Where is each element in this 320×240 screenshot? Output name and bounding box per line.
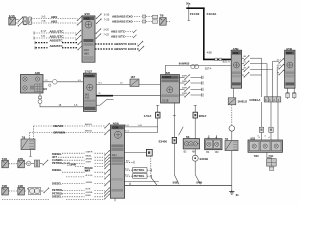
wire row4 ABS/STC: [34, 34, 76, 39]
vertical riser 1: [261, 58, 263, 97]
wire row5 bold ABS/STC: [35, 39, 78, 45]
inline terminals r1/r2: [143, 15, 152, 23]
svg-text:7/30: 7/30: [254, 155, 259, 158]
svg-text:C/WELA: C/WELA: [249, 98, 260, 102]
boxed label PETROL 1: [124, 167, 151, 172]
switch g1: [43, 160, 49, 165]
thick feed wire: [204, 8, 231, 59]
connector 16/7: [130, 76, 139, 86]
module 5/8 right wire 2: [180, 80, 204, 85]
svg-text:REM: REM: [286, 52, 292, 55]
wire right pin1b: [125, 130, 158, 133]
wire A00 to 37/37 upper: [43, 80, 83, 82]
wire down from 4.5LF to pin rows: [157, 118, 159, 133]
svg-text:ABS /STC: ABS /STC: [111, 35, 126, 39]
junction 4.5LF: [144, 112, 160, 118]
wire rr6 bold ABS/STC EXC: [95, 47, 139, 51]
svg-text:F1C2A: F1C2A: [207, 12, 218, 16]
module 5/8 right wire 4: [180, 92, 204, 97]
switch r2: [96, 19, 102, 24]
wire r1 ABS/ABS EXC: [104, 14, 142, 19]
dashed wires group1 to module: [62, 150, 110, 155]
svg-text:DIESEL: DIESEL: [52, 168, 62, 172]
extra row 177: [66, 174, 110, 179]
svg-text:DIESEL: DIESEL: [52, 181, 62, 185]
svg-text:7<8: 7<8: [41, 35, 46, 38]
CEM right wire 1: [242, 55, 262, 60]
CEM right wire 3: [242, 66, 273, 71]
svg-text:E3C2B: E3C2B: [200, 157, 208, 161]
svg-text:AR/BB: AR/BB: [86, 157, 93, 160]
wire PETROL to module: [62, 160, 110, 165]
svg-text:PETROL: PETROL: [52, 161, 63, 165]
svg-text:A 3<26: A 3<26: [86, 174, 94, 177]
svg-text:BL/R: BL/R: [86, 189, 91, 191]
wire below 7/8: [29, 150, 31, 157]
fuse block 2-cell: [23, 17, 32, 25]
wire r2 ABS/ABS EXC: [104, 19, 142, 24]
dashes between2: [9, 190, 18, 192]
connector B 2-cell: [205, 135, 222, 154]
wire row2 ABS: [31, 19, 77, 23]
svg-text:30a: 30a: [186, 2, 191, 6]
vertical dashed drops to 7/8 box: [30, 126, 34, 139]
svg-text:3<17: 3<17: [41, 30, 47, 33]
switch row2: [77, 20, 83, 25]
wire right pin1a: [125, 124, 158, 127]
brake label 2-line: [85, 167, 94, 173]
svg-text:ABS/STC EXC: ABS/STC EXC: [114, 47, 135, 51]
REM bottom pins: [286, 88, 296, 99]
connector 9/32 labels below: [254, 155, 274, 158]
wire 16/7 to module 5/8: [139, 83, 161, 85]
bus bar: [186, 7, 204, 9]
svg-text:B2/1-A: B2/1-A: [223, 60, 230, 63]
wire row1 ABS: [31, 15, 77, 19]
svg-text:7<8: 7<8: [41, 20, 46, 23]
svg-text:ABS: ABS: [84, 17, 90, 21]
switch row6: [78, 45, 84, 50]
module 5/8 right wire 3: [180, 86, 204, 91]
svg-text:CEM: CEM: [233, 52, 239, 55]
inline connector circle: [53, 80, 58, 85]
risers below strip: [262, 102, 279, 140]
switch g2: [44, 188, 50, 193]
connector 17/2 terminals: [152, 15, 157, 23]
wire right pin3 short dashed: [124, 160, 134, 164]
svg-text:COM: COM: [112, 127, 118, 130]
svg-text:41/M41B: 41/M41B: [162, 76, 172, 79]
svg-text:WKT: WKT: [85, 171, 91, 173]
wire PETROL g2 to module: [62, 187, 110, 192]
wire OB/VIO: [34, 123, 105, 128]
svg-text:SB/BN: SB/BN: [86, 182, 93, 184]
dashed wires group2 to module: [62, 181, 110, 186]
wire stub above 9/8LF: [194, 105, 197, 112]
pump element: [25, 187, 44, 194]
svg-text:ABS /STC: ABS /STC: [50, 34, 65, 38]
switch rr6: [139, 46, 145, 51]
switch r1: [96, 14, 102, 19]
long wire over module 5/8: [165, 63, 230, 75]
shield grommet: [228, 98, 247, 105]
svg-text:PETROL: PETROL: [134, 168, 145, 172]
svg-text:3<20: 3<20: [103, 29, 109, 32]
connector strip C/WELA: [249, 97, 280, 102]
ground G31: [229, 190, 239, 197]
switch row1: [77, 16, 83, 21]
svg-text:BRAKE: BRAKE: [85, 167, 94, 170]
extra row 166: [67, 164, 110, 169]
svg-text:DIESEL: DIESEL: [52, 195, 62, 199]
connector 7/8 (mid-left): [21, 135, 35, 149]
right label column group1: [52, 152, 76, 172]
terminal mark 1: [259, 127, 263, 132]
svg-text:GB/R: GB/R: [86, 162, 92, 164]
connector 1/2B: [18, 185, 25, 195]
wire 4KT to module: [58, 154, 110, 159]
svg-text:2<12: 2<12: [67, 164, 73, 167]
wire right pin2 to junction: [124, 149, 152, 156]
wire stub above 4.5LF: [156, 105, 159, 112]
svg-text:C/12B: C/12B: [162, 100, 169, 102]
switch into module2: [104, 130, 110, 135]
svg-text:9/4: 9/4: [43, 88, 47, 91]
svg-text:ABS: ABS: [84, 53, 89, 56]
wire rr5 bold ABS/STC EXC: [95, 42, 138, 46]
wire DIESEL g2 to module: [62, 194, 110, 199]
dashed drop from junction: [150, 156, 152, 177]
wire stub after switch: [107, 98, 114, 100]
svg-text:M: M: [27, 162, 29, 166]
wire DIESEL2 to module: [62, 169, 110, 174]
vertical riser 2: [266, 64, 268, 97]
switch row5: [78, 40, 84, 45]
svg-text:7<25: 7<25: [104, 19, 110, 22]
svg-text:SHIELD: SHIELD: [238, 100, 248, 104]
capacitor element: [31, 160, 43, 167]
svg-text:31: 31: [236, 193, 240, 197]
svg-text:B2T-4: B2T-4: [205, 67, 212, 70]
ground stub under A00: [39, 93, 41, 96]
svg-text:3<30: 3<30: [104, 14, 110, 17]
wire right pin6: [124, 180, 159, 182]
splice E3C2B: [192, 155, 208, 161]
svg-text:7/4J: 7/4J: [268, 155, 273, 158]
svg-text:6A/M41B: 6A/M41B: [179, 63, 190, 66]
vertical riser 4: [276, 67, 278, 97]
switch rr3: [96, 29, 102, 34]
wire OR/WBN: [30, 131, 105, 135]
svg-text:BA/BL: BA/BL: [86, 154, 93, 157]
stub wire: [188, 5, 190, 8]
svg-text:39/2: 39/2: [85, 94, 90, 96]
switch rr5: [138, 41, 144, 46]
svg-text:ABS: ABS: [51, 15, 57, 19]
svg-text:ABS/ABS EXC: ABS/ABS EXC: [112, 20, 133, 24]
CEM right wire 4: [242, 72, 262, 77]
REM left wire 2: [277, 64, 285, 69]
splice circle right: [229, 126, 235, 132]
svg-text:AB/GB: AB/GB: [85, 123, 92, 126]
svg-text:4/5B: 4/5B: [207, 52, 212, 55]
junction 9/8LF: [193, 112, 207, 118]
svg-text:ABS/STC: ABS/STC: [50, 44, 64, 48]
switch row4: [76, 35, 82, 40]
connector 1/7B: [18, 158, 25, 168]
svg-text:7<25: 7<25: [103, 34, 109, 37]
svg-text:ABS: ABS: [51, 19, 57, 23]
wire to module 5/8: [113, 95, 161, 97]
connector 7/8 X-box top right: [160, 14, 171, 26]
switch S1b: [18, 21, 24, 26]
vertical riser 3: [272, 61, 274, 97]
wire below splice: [194, 161, 196, 174]
switch rr4: [96, 34, 102, 39]
svg-text:NM: NM: [215, 152, 219, 154]
fuse wire F1/C02: [188, 9, 190, 21]
wire 1/16 to switches: [15, 20, 18, 24]
sub drop from 9/32: [267, 152, 271, 158]
svg-text:7/8: 7/8: [160, 14, 164, 18]
wire below E3400: [173, 143, 175, 174]
svg-text:OR/WBN: OR/WBN: [53, 131, 65, 135]
connector 9/32 main: [248, 135, 283, 152]
REM left wire 1: [273, 58, 285, 63]
svg-text:NM: NM: [192, 151, 196, 153]
small connector bottom right: [267, 159, 277, 171]
svg-text:ABS/ABS EXC: ABS/ABS EXC: [112, 15, 133, 19]
switch on stub: [100, 99, 107, 105]
wire shield to splice: [231, 105, 233, 126]
junction E3400: [159, 137, 177, 143]
wire row6 bold ABS/STC: [35, 44, 78, 50]
svg-text:ABS/STC: ABS/STC: [50, 39, 64, 43]
svg-text:4/16: 4/16: [84, 49, 89, 52]
wire down from 5/8 to E3400: [173, 103, 176, 137]
wire 7/3 to ground: [231, 151, 233, 190]
svg-text:A/C: A/C: [126, 160, 130, 163]
svg-text:GR/BB: GR/BB: [86, 192, 93, 194]
switch junction to ground bus: [151, 177, 157, 185]
REM left wire 3: [277, 70, 284, 75]
sensor M: [25, 161, 31, 166]
CEM right wire 2: [242, 61, 267, 66]
wire A00 fuse to 37/37: [40, 104, 83, 108]
switch to ground line right: [195, 175, 200, 185]
svg-text:8/3B: 8/3B: [173, 182, 178, 185]
svg-text:9/8LF: 9/8LF: [199, 114, 207, 118]
switch E3400 to ground bus: [174, 175, 179, 185]
module bottom ground stub: [114, 198, 116, 201]
svg-text:PETROL: PETROL: [134, 174, 145, 178]
connector 5/6: [183, 136, 199, 153]
svg-text:P/TRAIN: P/TRAIN: [84, 75, 94, 78]
connector 7/3: [225, 138, 238, 151]
wire down from 9/8LF through box A: [194, 118, 196, 155]
switch S1a: [18, 17, 24, 22]
svg-text:ABS /STC: ABS /STC: [50, 29, 65, 33]
CEM bottom shield drop: [233, 88, 235, 97]
svg-text:3<5: 3<5: [41, 16, 46, 19]
svg-text:OB/VIO: OB/VIO: [53, 124, 64, 128]
wire splice to 7/3: [231, 131, 233, 140]
wire PETROL2 g2 to module: [62, 191, 110, 196]
slash into connector row: [179, 127, 184, 135]
wire rr3 ABS /STC: [103, 29, 136, 34]
fuse symbol under A00: [38, 96, 42, 104]
svg-text:8/4W: 8/4W: [196, 182, 202, 185]
inline connector circles on long wire: [191, 64, 199, 68]
connector 7/2B: [2, 185, 9, 195]
module 5/8 right wire 1: [180, 74, 204, 79]
pin circle: [49, 84, 51, 86]
svg-text:BR/GB: BR/GB: [85, 131, 92, 133]
wire CANBO to module: [62, 157, 110, 162]
svg-text:4.5LF: 4.5LF: [144, 114, 152, 118]
svg-text:OAR/R: OAR/R: [86, 150, 93, 153]
wire row3 ABS/STC: [34, 29, 76, 34]
terminal mark 2: [269, 127, 273, 132]
inline connector on feed: [207, 52, 230, 64]
svg-text:BN/R: BN/R: [86, 195, 92, 197]
thick shielded wire 37/37 to 5/8: [96, 95, 113, 97]
wire rr4 ABS /STC: [103, 34, 136, 39]
connector 7/1B: [2, 158, 9, 168]
bottom dashed row: [2, 198, 105, 200]
wire 37/37 to 16/7 connector: [96, 82, 130, 85]
switch into module: [104, 123, 110, 128]
svg-text:E3400: E3400: [159, 140, 168, 144]
ground bus wire bottom: [124, 183, 232, 186]
connector 1/16: [9, 14, 16, 25]
svg-text:ABS/STC EXC: ABS/STC EXC: [114, 42, 135, 46]
lower stub wire with switch: [96, 104, 100, 106]
svg-text:ABS /STC: ABS /STC: [111, 30, 126, 34]
svg-text:A/4J: A/4J: [112, 154, 117, 157]
boxed label PETROL 2: [124, 173, 151, 178]
svg-text:F1C02: F1C02: [190, 12, 200, 16]
right label column group2: [52, 181, 63, 198]
switch row3: [76, 30, 82, 35]
dashes between: [9, 163, 18, 165]
svg-text:A/13: A/13: [85, 97, 90, 100]
